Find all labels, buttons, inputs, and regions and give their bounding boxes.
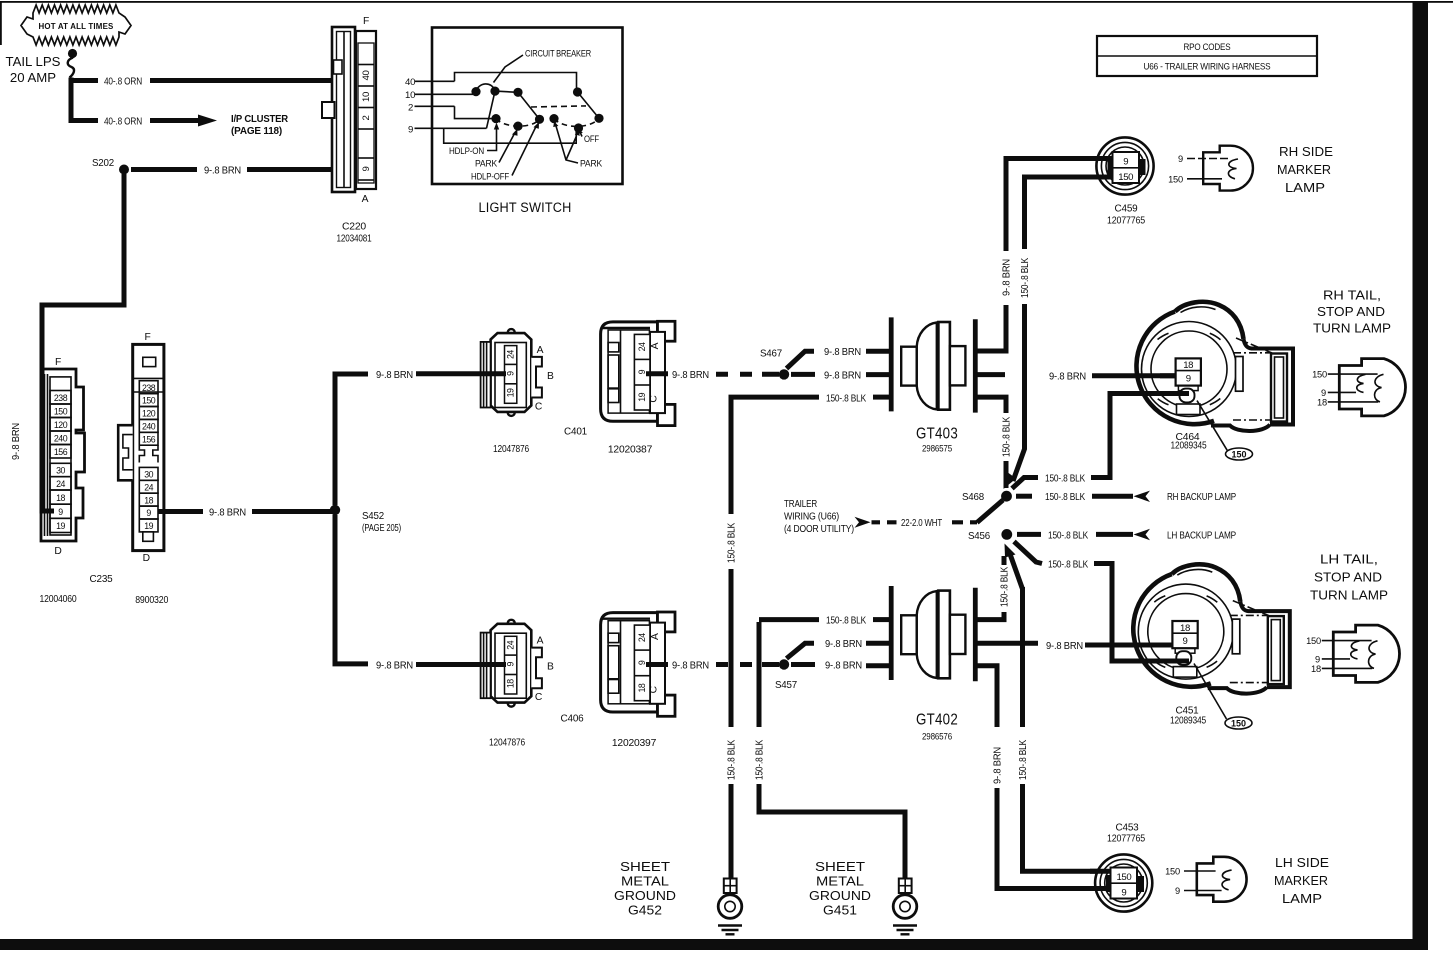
svg-text:LH SIDE: LH SIDE [1275, 855, 1329, 870]
svg-text:150-.8 BLK: 150-.8 BLK [1018, 740, 1029, 780]
svg-text:METAL: METAL [621, 875, 669, 889]
wire 9-.8 BRN C406 to S457 [646, 662, 668, 667]
page border right bar [1413, 2, 1429, 949]
svg-text:C: C [535, 402, 543, 413]
svg-text:40-.8 ORN: 40-.8 ORN [104, 77, 142, 88]
C235b pin 24 [139, 480, 158, 493]
svg-text:150-.8 BLK: 150-.8 BLK [1000, 567, 1011, 607]
wire S202 down to C235 pin 9 [42, 174, 124, 511]
wire 9-.8 BRN S457 to GT402 bottom [791, 662, 815, 667]
wire 9-.8 BRN GT402 bottom to C453 [975, 666, 997, 727]
svg-text:8900320: 8900320 [135, 595, 168, 606]
svg-text:22-2.0 WHT: 22-2.0 WHT [901, 518, 943, 529]
svg-text:19: 19 [56, 521, 65, 531]
svg-text:12047876: 12047876 [489, 738, 525, 749]
svg-text:150: 150 [1118, 172, 1133, 183]
svg-text:9: 9 [1178, 154, 1183, 164]
svg-text:150-.8 BLK: 150-.8 BLK [1048, 559, 1088, 570]
svg-text:9-.8 BRN: 9-.8 BRN [672, 370, 709, 381]
svg-text:S457: S457 [775, 680, 797, 691]
svg-text:9: 9 [637, 660, 647, 665]
svg-text:150-.8 BLK: 150-.8 BLK [755, 740, 766, 780]
wiper right PARK [578, 92, 600, 118]
wire stubs into C453 [1090, 869, 1111, 874]
svg-text:LAMP: LAMP [1285, 180, 1325, 195]
svg-text:9-.8 BRN: 9-.8 BRN [993, 747, 1004, 784]
svg-text:18: 18 [1317, 397, 1327, 407]
svg-text:GROUND: GROUND [614, 889, 676, 903]
svg-text:9: 9 [1123, 156, 1128, 167]
svg-text:HDLP-ON: HDLP-ON [449, 146, 484, 157]
svg-text:9-.8 BRN: 9-.8 BRN [1002, 259, 1013, 296]
svg-text:18: 18 [144, 495, 153, 505]
svg-text:S468: S468 [962, 492, 984, 503]
connector C235 half 12004060 [40, 357, 113, 605]
wire fuse output 40-.8 ORN vertical [69, 78, 74, 119]
svg-text:12077765: 12077765 [1107, 216, 1145, 227]
svg-text:9: 9 [361, 166, 372, 171]
connector C235 half 8900320 [118, 332, 168, 606]
C235b pin 30 [139, 467, 158, 480]
RPO codes box [1097, 36, 1317, 76]
svg-text:238: 238 [142, 383, 156, 393]
dashed arc HDLP-ON PARK HDLP-OFF [496, 119, 540, 127]
wire 150-.8 BLK C459 to S468 [1025, 177, 1114, 249]
svg-text:150-.8 BLK: 150-.8 BLK [826, 393, 866, 404]
svg-text:2986576: 2986576 [922, 732, 952, 742]
svg-text:9: 9 [1121, 887, 1126, 898]
svg-text:HDLP-OFF: HDLP-OFF [471, 172, 509, 183]
svg-text:S467: S467 [760, 349, 782, 360]
wire 9-.8 BRN S202 to C220 pin 9 [131, 167, 197, 172]
svg-text:SHEET: SHEET [815, 860, 865, 874]
svg-text:150: 150 [1168, 174, 1183, 184]
svg-text:240: 240 [54, 434, 68, 444]
svg-text:9-.8 BRN: 9-.8 BRN [825, 639, 862, 650]
svg-text:A: A [537, 345, 544, 356]
C220 pin 2 [358, 128, 374, 130]
grommet GT402 [891, 586, 975, 681]
wire 150-.8 BLK GT403 bottom to S468 [975, 397, 1006, 413]
wire 9-.8 BRN GT403 mid to C464 pin 9 [975, 372, 1005, 377]
svg-text:9-.8 BRN: 9-.8 BRN [825, 661, 862, 672]
svg-text:PARK: PARK [475, 159, 498, 170]
svg-text:40: 40 [361, 71, 372, 81]
wire stubs into C464 [1160, 373, 1176, 378]
wire stubs into C451 [1160, 643, 1173, 648]
svg-text:LAMP: LAMP [1282, 891, 1322, 906]
RH side marker bulb [1168, 146, 1253, 191]
svg-text:10: 10 [361, 92, 372, 102]
svg-text:C406: C406 [561, 714, 584, 725]
svg-text:STOP AND: STOP AND [1317, 304, 1385, 319]
svg-text:2: 2 [361, 115, 372, 120]
svg-text:METAL: METAL [816, 875, 864, 889]
svg-text:LH BACKUP LAMP: LH BACKUP LAMP [1167, 530, 1236, 541]
svg-text:2: 2 [408, 103, 413, 114]
svg-text:A: A [537, 636, 544, 647]
wire 9-.8 BRN S467 to GT403 middle [791, 372, 815, 377]
svg-text:A: A [650, 633, 661, 640]
fuse TAIL LPS 20 AMP [6, 49, 78, 85]
svg-text:A: A [362, 194, 369, 205]
page border bottom bar [0, 939, 1428, 950]
C235a pin 150 [50, 404, 71, 418]
svg-text:C: C [535, 692, 543, 703]
svg-text:TAIL LPS: TAIL LPS [6, 54, 61, 69]
svg-text:12020397: 12020397 [612, 738, 657, 749]
svg-text:D: D [54, 546, 61, 557]
connector C406 half 12020397 [601, 612, 675, 716]
wire 9-.8 BRN GT402 mid to LH tail lamp [975, 641, 1038, 646]
svg-text:24: 24 [56, 479, 65, 489]
svg-text:S452: S452 [362, 511, 384, 522]
svg-text:12047876: 12047876 [493, 444, 529, 455]
svg-text:156: 156 [142, 434, 156, 444]
svg-text:150: 150 [1231, 719, 1246, 729]
wire 150-.8 BLK vertical to G452 [729, 397, 734, 514]
wire 150-.8 BLK GT402 top to S456 [975, 612, 1004, 620]
svg-text:C459: C459 [1115, 204, 1138, 215]
wire 9-.8 BRN S457 diagonal to GT402 middle [787, 643, 815, 658]
svg-text:A: A [650, 342, 661, 349]
C235a pin 9 [50, 504, 71, 518]
svg-text:9: 9 [637, 369, 647, 374]
C235a pin 156 [50, 445, 71, 459]
svg-text:18: 18 [1311, 664, 1321, 674]
wire 150-.8 BLK S456 to LH tail lamp [1014, 542, 1042, 564]
ground G452 [718, 879, 742, 935]
svg-text:156: 156 [54, 447, 68, 457]
svg-text:D: D [143, 553, 150, 564]
svg-text:TURN LAMP: TURN LAMP [1313, 321, 1391, 336]
connector C406 half 12047876 [481, 620, 542, 707]
svg-text:150-.8 BLK: 150-.8 BLK [1045, 473, 1085, 484]
svg-text:RPO CODES: RPO CODES [1184, 42, 1231, 52]
svg-text:G451: G451 [823, 904, 857, 918]
power source box HOT AT ALL TIMES [21, 5, 131, 45]
svg-text:9-.8 BRN: 9-.8 BRN [1046, 641, 1083, 652]
wire 150-.8 BLK S468 to RH tail lamp [1012, 478, 1038, 489]
svg-text:24: 24 [637, 342, 647, 351]
svg-text:(PAGE 118): (PAGE 118) [231, 126, 282, 137]
circuit breaker arc [476, 84, 495, 92]
svg-text:PARK: PARK [580, 159, 603, 170]
grommet GT403 [891, 317, 975, 412]
svg-text:9-.8 BRN: 9-.8 BRN [209, 508, 246, 519]
svg-text:SHEET: SHEET [620, 860, 670, 874]
svg-text:MARKER: MARKER [1277, 162, 1331, 177]
svg-text:9-.8 BRN: 9-.8 BRN [1049, 372, 1086, 383]
svg-text:12089345: 12089345 [1171, 441, 1207, 452]
filament [1228, 159, 1238, 179]
svg-text:18: 18 [637, 683, 647, 692]
ground G451 [893, 879, 917, 935]
C235b pin 238 [139, 381, 158, 394]
C220 pin 40 [358, 64, 374, 66]
wire 150-.8 BLK S456 to LH backup lamp [1017, 532, 1041, 537]
svg-text:9: 9 [1315, 654, 1320, 664]
C235b pin 150 [139, 394, 158, 407]
svg-text:C235: C235 [90, 574, 113, 585]
light switch internal circuit box [405, 28, 623, 185]
wire 150-.8 BLK S468 to RH backup lamp [1016, 494, 1032, 499]
dashed arc PARK OFF [554, 118, 599, 126]
svg-text:F: F [55, 357, 61, 368]
svg-text:S202: S202 [92, 158, 114, 169]
svg-text:TRAILER: TRAILER [784, 499, 817, 510]
svg-text:24: 24 [506, 350, 516, 359]
svg-text:LIGHT SWITCH: LIGHT SWITCH [479, 200, 572, 216]
wiper 9 lead to CB [487, 91, 496, 128]
wire 40-.8 ORN to C220 pin 40 [69, 78, 99, 83]
svg-text:150-.8 BLK: 150-.8 BLK [1020, 258, 1031, 298]
C235b pin 18 [139, 493, 158, 506]
C235a pin 24 [50, 477, 71, 490]
svg-text:G452: G452 [628, 904, 662, 918]
svg-text:U66 - TRAILER WIRING HARNESS: U66 - TRAILER WIRING HARNESS [1144, 62, 1271, 72]
svg-text:30: 30 [56, 466, 65, 476]
C235a pin 18 [50, 490, 71, 504]
C235b pin 240 [139, 419, 158, 432]
svg-text:12034081: 12034081 [337, 234, 372, 245]
wire 9-.8 BRN C401 to S467 [646, 371, 668, 376]
wire S452 riser [335, 374, 368, 505]
svg-text:18: 18 [56, 493, 65, 503]
svg-text:LH TAIL,: LH TAIL, [1320, 552, 1378, 567]
svg-text:40: 40 [405, 77, 415, 88]
svg-text:B: B [547, 371, 554, 382]
svg-text:GT402: GT402 [916, 712, 958, 729]
svg-text:9: 9 [58, 507, 63, 517]
svg-text:150: 150 [1165, 867, 1180, 877]
svg-text:(PAGE 205): (PAGE 205) [362, 523, 401, 534]
LH side marker bulb [1197, 857, 1247, 902]
svg-text:F: F [144, 332, 150, 343]
svg-text:GT403: GT403 [916, 426, 958, 443]
svg-text:C220: C220 [342, 222, 366, 233]
connector C401 half 12020387 [601, 321, 675, 425]
svg-text:C: C [649, 395, 660, 403]
svg-text:24: 24 [144, 482, 153, 492]
svg-text:12077765: 12077765 [1107, 834, 1145, 845]
svg-text:RH SIDE: RH SIDE [1279, 144, 1333, 159]
C220 pin 9 [358, 157, 374, 159]
C235a pin 120 [50, 418, 71, 432]
svg-text:RH TAIL,: RH TAIL, [1323, 288, 1381, 303]
svg-text:150-.8 BLK: 150-.8 BLK [1002, 417, 1013, 457]
connector C459 RH side marker socket [1096, 137, 1153, 226]
svg-text:WIRING (U66): WIRING (U66) [784, 512, 839, 523]
wire 9-.8 BRN 8900320 pin9 to S452 [158, 509, 203, 514]
C235a pin 30 [50, 463, 71, 476]
svg-text:9: 9 [506, 662, 516, 667]
svg-text:40-.8 ORN: 40-.8 ORN [104, 117, 142, 128]
svg-text:C: C [649, 685, 660, 693]
connector C220 [322, 16, 376, 245]
svg-text:150-.8 BLK: 150-.8 BLK [727, 523, 738, 563]
leader to circuit breaker [494, 55, 524, 83]
svg-text:9: 9 [1175, 886, 1180, 896]
C235a pin 240 [50, 431, 71, 445]
RH tail bulb [1328, 359, 1406, 416]
svg-text:MARKER: MARKER [1274, 873, 1328, 888]
LH tail bulb [1322, 625, 1400, 682]
svg-text:9-.8 BRN: 9-.8 BRN [672, 661, 709, 672]
svg-text:240: 240 [142, 422, 156, 432]
contact dots [471, 87, 480, 96]
svg-text:CIRCUIT BREAKER: CIRCUIT BREAKER [525, 49, 591, 60]
svg-text:150-.8 BLK: 150-.8 BLK [1048, 530, 1088, 541]
C235b pin 156 [139, 432, 158, 445]
svg-text:2986575: 2986575 [922, 444, 952, 454]
page border top line [0, 1, 1453, 3]
C235b pin 9 [139, 506, 158, 519]
svg-text:12020387: 12020387 [608, 445, 653, 456]
connector C451 LH tail lamp socket [1133, 564, 1290, 693]
dashed coupling line [531, 106, 586, 107]
svg-text:12089345: 12089345 [1170, 716, 1206, 727]
splice S452 [330, 505, 340, 515]
svg-text:I/P CLUSTER: I/P CLUSTER [231, 114, 289, 125]
svg-text:C453: C453 [1116, 823, 1139, 834]
switch rail contacts [495, 91, 518, 92]
svg-text:B: B [547, 662, 554, 673]
C235a pin 19 [50, 518, 71, 532]
svg-text:150: 150 [1312, 370, 1327, 380]
svg-text:9: 9 [506, 371, 516, 376]
svg-text:HOT AT ALL TIMES: HOT AT ALL TIMES [39, 21, 114, 31]
wire 150-.8 BLK C453 up to S456 [1005, 544, 1016, 558]
svg-text:S456: S456 [968, 531, 990, 542]
svg-text:150: 150 [1231, 450, 1246, 460]
svg-text:9-.8 BRN: 9-.8 BRN [376, 370, 413, 381]
svg-text:TURN LAMP: TURN LAMP [1310, 588, 1388, 603]
svg-text:150-.8 BLK: 150-.8 BLK [1045, 492, 1085, 503]
svg-text:10: 10 [405, 90, 415, 101]
svg-text:F: F [363, 16, 369, 27]
svg-text:OFF: OFF [584, 134, 599, 145]
svg-text:150: 150 [1306, 636, 1321, 646]
wire 9-.8 BRN S467 diagonal to GT403 top [787, 351, 815, 368]
svg-text:150: 150 [142, 396, 156, 406]
svg-text:150-.8 BLK: 150-.8 BLK [727, 740, 738, 780]
svg-text:(4 DOOR UTILITY): (4 DOOR UTILITY) [784, 524, 854, 535]
svg-text:120: 120 [54, 420, 68, 430]
svg-text:24: 24 [506, 640, 516, 649]
splice S457 [779, 659, 789, 669]
svg-text:C401: C401 [564, 427, 587, 438]
wire 9-.8 BRN C459 to GT403 top [1006, 159, 1113, 252]
svg-text:RH BACKUP LAMP: RH BACKUP LAMP [1167, 492, 1236, 503]
svg-text:9: 9 [408, 124, 413, 135]
svg-text:30: 30 [144, 470, 153, 480]
svg-text:9-.8 BRN: 9-.8 BRN [204, 166, 241, 177]
svg-text:19: 19 [506, 388, 516, 397]
C235b pin 120 [139, 407, 158, 420]
svg-text:150: 150 [1116, 872, 1131, 883]
svg-text:150-.8 BLK: 150-.8 BLK [826, 615, 866, 626]
wiper HDLP-OFF [518, 92, 540, 119]
svg-text:9: 9 [1321, 388, 1326, 398]
svg-text:9-.8 BRN: 9-.8 BRN [376, 661, 413, 672]
wire 150-.8 BLK to GT402 top [759, 617, 819, 622]
svg-text:19: 19 [637, 392, 647, 401]
wire 150-.8 BLK vertical to G451 [757, 622, 762, 727]
svg-text:9-.8 BRN: 9-.8 BRN [824, 347, 861, 358]
svg-text:24: 24 [637, 633, 647, 642]
svg-text:GROUND: GROUND [809, 889, 871, 903]
connector C401 half 12047876 [481, 329, 542, 416]
svg-text:238: 238 [54, 393, 68, 403]
wire 40-.8 ORN to I/P cluster [69, 118, 99, 123]
svg-text:STOP AND: STOP AND [1314, 570, 1382, 585]
wire 150-.8 BLK to GT403 bottom [729, 395, 820, 400]
svg-text:150: 150 [54, 407, 68, 417]
svg-text:18: 18 [506, 679, 516, 688]
svg-text:20 AMP: 20 AMP [10, 70, 56, 85]
svg-text:120: 120 [142, 409, 156, 419]
C235b pin 19 [139, 519, 158, 532]
svg-text:12004060: 12004060 [40, 594, 77, 605]
connector C464 RH tail lamp socket [1136, 302, 1293, 431]
svg-text:19: 19 [144, 521, 153, 531]
C235a pin 238 [50, 391, 71, 405]
svg-text:9-.8 BRN: 9-.8 BRN [824, 370, 861, 381]
C220 pin 10 [358, 107, 374, 109]
svg-text:9: 9 [146, 508, 151, 518]
connector C453 LH side marker socket [1095, 823, 1152, 912]
svg-text:9-.8 BRN: 9-.8 BRN [11, 423, 22, 460]
